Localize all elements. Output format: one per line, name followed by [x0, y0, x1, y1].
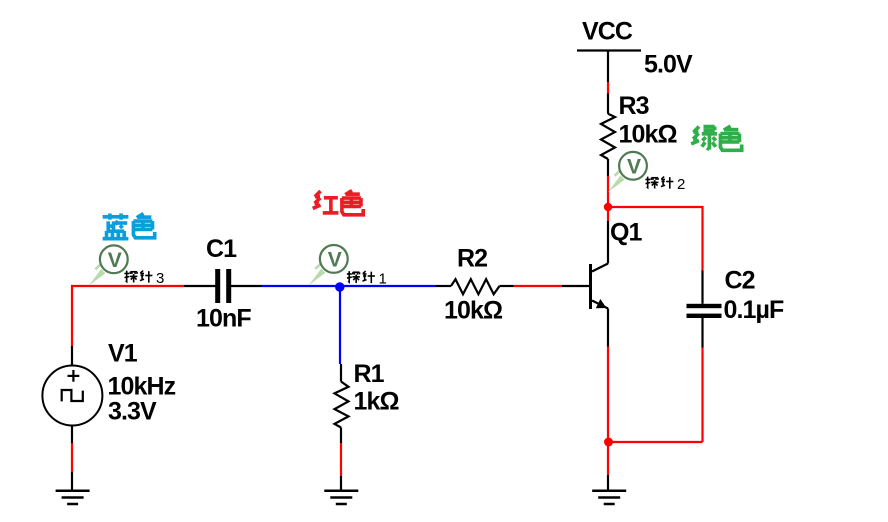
svg-text:R2: R2: [457, 245, 487, 273]
svg-text:2: 2: [677, 176, 685, 193]
svg-text:C1: C1: [206, 235, 237, 263]
svg-text:5.0V: 5.0V: [644, 50, 693, 78]
svg-text:10kHz: 10kHz: [108, 372, 176, 400]
svg-text:0.1µF: 0.1µF: [724, 296, 785, 324]
svg-text:1: 1: [379, 271, 387, 288]
svg-text:R1: R1: [354, 360, 385, 388]
svg-text:V1: V1: [108, 340, 138, 368]
svg-text:VCC: VCC: [582, 18, 633, 46]
svg-text:V: V: [627, 155, 641, 178]
svg-text:1kΩ: 1kΩ: [354, 388, 400, 416]
svg-text:V: V: [108, 249, 122, 272]
svg-text:V: V: [328, 248, 342, 271]
svg-text:10kΩ: 10kΩ: [444, 297, 503, 325]
svg-text:10nF: 10nF: [196, 305, 251, 333]
svg-text:C2: C2: [725, 267, 755, 295]
svg-text:3.3V: 3.3V: [108, 397, 157, 425]
svg-text:R3: R3: [619, 92, 649, 120]
svg-text:3: 3: [156, 270, 164, 287]
svg-text:Q1: Q1: [610, 219, 643, 247]
svg-text:10kΩ: 10kΩ: [619, 121, 678, 149]
